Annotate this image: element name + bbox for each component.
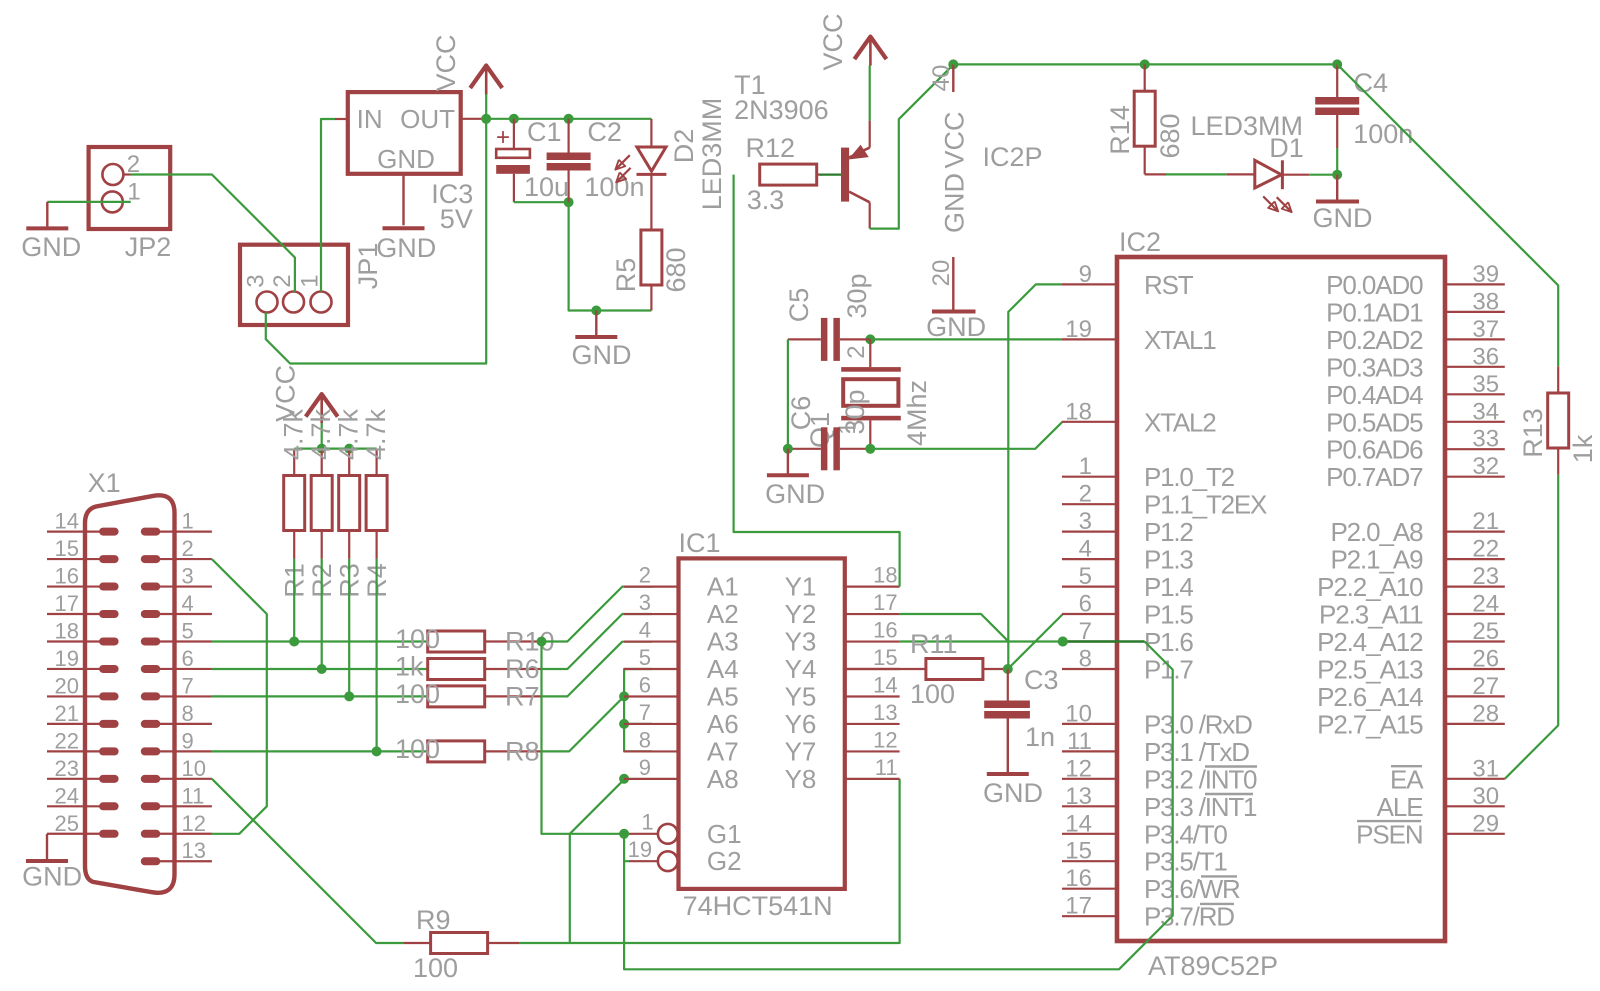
junction VCC rail at C2 <box>564 114 574 124</box>
pin X1-6 <box>141 665 161 673</box>
ground symbol at IC3 <box>383 226 425 230</box>
resistor R2 4.7k <box>321 449 323 476</box>
ground symbol at JP2 <box>46 202 48 227</box>
pin IC1 Y2 <box>845 613 900 615</box>
pin IC1 A3 <box>624 640 679 642</box>
wire R2 to X1 row <box>321 559 323 669</box>
buffer IC1 74HCT541N body <box>679 558 845 889</box>
svg-text:R12: R12 <box>746 133 796 163</box>
svg-text:C4: C4 <box>1354 68 1389 98</box>
junction at P1.6 (top) <box>1058 637 1068 647</box>
resistor R12 3.3 <box>760 164 817 185</box>
capacitor C1 10u polarized <box>513 119 515 149</box>
wire Y2 to RST net <box>900 614 1008 641</box>
junction R10 output <box>537 637 547 647</box>
svg-text:4: 4 <box>639 618 651 643</box>
pin IC2 P3.2 /INT0 (12) <box>1062 778 1117 780</box>
pin IC2 P2.1_A9 (22) <box>1445 558 1505 560</box>
svg-text:P2.7_A15: P2.7_A15 <box>1317 709 1423 739</box>
svg-text:P0.3AD3: P0.3AD3 <box>1326 352 1423 382</box>
LED D2 <box>650 119 652 147</box>
svg-text:8: 8 <box>639 727 651 752</box>
svg-text:680: 680 <box>661 247 691 292</box>
svg-text:2: 2 <box>182 536 194 561</box>
pin IC2 P1.6 (7) <box>1062 640 1117 642</box>
svg-text:R7: R7 <box>505 681 540 711</box>
svg-text:36: 36 <box>1472 343 1499 370</box>
svg-text:100: 100 <box>910 679 955 709</box>
junction bundle at A5 <box>619 691 629 701</box>
pin X1-24 <box>99 802 119 810</box>
pin IC1 Y7 <box>845 750 900 752</box>
pin IC2 P2.6_A14 (27) <box>1445 695 1505 697</box>
svg-text:27: 27 <box>1472 673 1499 700</box>
resistor R1 4.7k <box>293 449 295 476</box>
svg-text:17: 17 <box>1065 893 1092 920</box>
wire R3 to X1 row <box>348 559 350 697</box>
svg-text:19: 19 <box>55 646 79 671</box>
wire X1 to R6 <box>212 668 428 670</box>
junction XTAL1 at C5 <box>865 334 875 344</box>
svg-text:P0.5AD5: P0.5AD5 <box>1326 407 1423 437</box>
svg-text:A2: A2 <box>707 599 739 629</box>
wire JP2 pin2 to JP1 pin2 <box>131 175 295 293</box>
svg-text:8: 8 <box>182 701 194 726</box>
svg-text:P0.6AD6: P0.6AD6 <box>1326 435 1423 465</box>
svg-text:11: 11 <box>182 783 205 808</box>
svg-text:Y8: Y8 <box>785 764 817 794</box>
capacitor C4 100n <box>1336 64 1338 97</box>
pin X1-13 <box>141 857 161 865</box>
svg-text:2: 2 <box>639 563 651 588</box>
junction D1 C4 node <box>1332 170 1342 180</box>
wire R9 to Y8 riser <box>520 779 900 943</box>
resistor R3 4.7k <box>348 449 350 476</box>
svg-text:1k: 1k <box>1568 434 1598 463</box>
svg-text:13: 13 <box>182 838 206 863</box>
pin IC3 OUT <box>461 118 483 120</box>
svg-text:24: 24 <box>1472 591 1499 618</box>
svg-text:AT89C52P: AT89C52P <box>1148 951 1278 981</box>
wire VCC rail from IC3 OUT to D2 <box>483 118 651 120</box>
wire R12 to T1 base <box>817 174 822 176</box>
pin IC2 EA (31) <box>1445 778 1505 780</box>
svg-text:14: 14 <box>55 509 79 534</box>
junction at P1.6 <box>1058 637 1068 647</box>
wire IC1 A4-A7 bundle <box>624 669 652 751</box>
resistor R11 100 <box>845 668 926 670</box>
pin IC2 P0.7AD7 (32) <box>1445 476 1505 478</box>
svg-text:Y4: Y4 <box>785 654 817 684</box>
pin IC1 A1 <box>624 585 679 587</box>
pin X1-1 <box>141 528 161 536</box>
wire Y3 to P1.6 <box>900 640 1063 642</box>
wire R13 to EA pin31 <box>1505 475 1558 779</box>
svg-text:4Mhz: 4Mhz <box>902 380 932 446</box>
svg-text:2: 2 <box>843 345 870 358</box>
svg-text:7: 7 <box>639 700 651 725</box>
pin IC2 PSEN (29) <box>1445 833 1505 835</box>
svg-text:P1.1_T2EX: P1.1_T2EX <box>1144 490 1267 520</box>
pin X1-8 <box>141 720 161 728</box>
svg-text:Y2: Y2 <box>785 599 817 629</box>
svg-text:11: 11 <box>875 755 898 780</box>
svg-text:25: 25 <box>1472 618 1499 645</box>
wire T1 emitter to VCC <box>869 66 871 121</box>
overline RD <box>1200 903 1234 905</box>
pin IC2 P3.7/RD (17) <box>1062 915 1117 917</box>
svg-text:P2.4_A12: P2.4_A12 <box>1317 627 1423 657</box>
svg-text:2N3906: 2N3906 <box>734 95 829 125</box>
svg-text:12: 12 <box>182 811 206 836</box>
svg-text:100: 100 <box>413 953 458 983</box>
wire X1 pin2 to pin12 <box>212 559 267 834</box>
pin IC2 XTAL2 (18) <box>1062 421 1117 423</box>
resistor R7 100 <box>428 686 485 707</box>
junction RST C3 R11 <box>1003 664 1013 674</box>
svg-text:JP2: JP2 <box>125 232 172 262</box>
svg-text:C6: C6 <box>786 396 816 431</box>
capacitor C2 100n <box>567 119 569 153</box>
pin IC2 P3.3 /INT1 (13) <box>1062 805 1117 807</box>
svg-text:P1.2: P1.2 <box>1144 517 1193 547</box>
pin X1-18 <box>99 637 119 645</box>
svg-text:P2.6_A14: P2.6_A14 <box>1317 682 1423 712</box>
svg-text:30: 30 <box>1472 783 1499 810</box>
svg-text:XTAL2: XTAL2 <box>1144 407 1216 437</box>
svg-text:D2: D2 <box>669 129 699 164</box>
svg-text:XTAL1: XTAL1 <box>1144 325 1216 355</box>
junction R3 <box>344 691 354 701</box>
pin X1-10 <box>141 775 161 783</box>
svg-text:22: 22 <box>55 728 79 753</box>
svg-text:VCC: VCC <box>431 34 461 91</box>
capacitor C3 1n <box>1007 669 1009 701</box>
pin IC2 P0.5AD5 (34) <box>1445 421 1505 423</box>
svg-text:P2.5_A13: P2.5_A13 <box>1317 655 1423 685</box>
svg-text:EA: EA <box>1390 764 1424 794</box>
svg-text:680: 680 <box>1155 113 1185 158</box>
svg-text:3: 3 <box>182 564 194 589</box>
junction C ground node <box>564 197 574 207</box>
svg-text:GND: GND <box>765 479 825 509</box>
pin IC2 P2.0_A8 (21) <box>1445 530 1505 532</box>
svg-text:A3: A3 <box>707 627 739 657</box>
svg-text:P3.5/T1: P3.5/T1 <box>1144 847 1227 877</box>
svg-text:R14: R14 <box>1105 105 1135 155</box>
svg-text:P0.4AD4: P0.4AD4 <box>1326 380 1423 410</box>
ground symbol at C3 <box>987 772 1029 776</box>
svg-text:1: 1 <box>1079 453 1092 480</box>
svg-text:8: 8 <box>1079 646 1092 673</box>
wire RST diagonal to P1.5 <box>1008 614 1063 669</box>
pin IC2 P2.2_A10 (23) <box>1445 585 1505 587</box>
svg-text:17: 17 <box>873 590 897 615</box>
connector X1 DB25 outline <box>85 495 175 892</box>
svg-text:21: 21 <box>55 701 79 726</box>
resistor R4 4.7k <box>376 449 378 476</box>
svg-text:100: 100 <box>395 734 440 764</box>
svg-text:26: 26 <box>1472 646 1499 673</box>
pin X1-9 <box>141 747 161 755</box>
junction XTAL2 at Q1 <box>865 444 875 454</box>
svg-text:100: 100 <box>395 624 440 654</box>
pin X1-7 <box>141 692 161 700</box>
pin IC1 A5 <box>624 695 679 697</box>
svg-text:5: 5 <box>639 645 651 670</box>
pin IC1 A7 <box>624 750 679 752</box>
svg-text:ALE: ALE <box>1377 792 1424 822</box>
pin IC2 P0.2AD2 (37) <box>1445 338 1505 340</box>
svg-text:6: 6 <box>639 672 651 697</box>
pin X1-15 <box>99 555 119 563</box>
svg-text:3.3: 3.3 <box>747 185 785 215</box>
junction bus at R3 <box>344 444 354 454</box>
pin X1-17 <box>99 610 119 618</box>
svg-text:23: 23 <box>1472 563 1499 590</box>
wire XTAL1 net <box>870 338 1062 340</box>
svg-text:C1: C1 <box>527 117 562 147</box>
crystal Q1 4Mhz <box>869 339 871 367</box>
svg-text:P3.1 /TxD: P3.1 /TxD <box>1144 737 1249 767</box>
svg-text:IC1: IC1 <box>679 528 721 558</box>
pin IC2 P0.4AD4 (35) <box>1445 393 1505 395</box>
junction at C4 <box>1332 59 1342 69</box>
pin IC2 P3.4/T0 (14) <box>1062 833 1117 835</box>
svg-text:33: 33 <box>1472 426 1499 453</box>
svg-text:4.7k: 4.7k <box>361 408 391 460</box>
svg-text:Y1: Y1 <box>785 572 817 602</box>
power VCC arrow above T1 <box>854 37 886 60</box>
wire JP1 pin3 to VCC net <box>266 119 486 364</box>
junction bundle at A6 <box>619 719 629 729</box>
svg-text:31: 31 <box>1472 755 1499 782</box>
svg-text:P0.0AD0: P0.0AD0 <box>1326 270 1423 300</box>
pin IC1 G1 <box>629 833 658 835</box>
wire enable over P1.6 pin <box>1063 640 1145 642</box>
svg-text:P2.1_A9: P2.1_A9 <box>1330 545 1423 575</box>
svg-text:13: 13 <box>873 700 897 725</box>
pin X1-14 <box>99 528 119 536</box>
wire VCC bus above R1-R4 <box>294 448 376 450</box>
svg-text:2: 2 <box>1079 481 1092 508</box>
svg-text:15: 15 <box>55 536 79 561</box>
pin IC1 Y5 <box>845 695 900 697</box>
wire C5 C6 ground leg <box>787 339 789 448</box>
regulator IC3 5V body <box>348 92 461 174</box>
junction enable at G1 <box>619 829 629 839</box>
wire XTAL2 net <box>870 422 1062 449</box>
svg-text:R9: R9 <box>416 905 451 935</box>
overline WR <box>1201 875 1237 877</box>
pin X1-16 <box>99 583 119 591</box>
svg-text:GND: GND <box>572 340 632 370</box>
svg-text:GND: GND <box>376 233 436 263</box>
pin X1-21 <box>99 720 119 728</box>
connector JP1 <box>240 245 348 325</box>
svg-text:OUT: OUT <box>400 104 455 134</box>
wire enable net R10 to G1 G2 <box>542 642 630 834</box>
svg-text:LED3MM: LED3MM <box>697 98 727 211</box>
wire Y8 net diagonal to A8 <box>570 779 625 834</box>
svg-text:37: 37 <box>1472 316 1499 343</box>
wire X1 to R10 <box>212 640 428 642</box>
junction VCC rail at arrow <box>481 114 491 124</box>
svg-text:40: 40 <box>928 65 955 92</box>
resistor R10 100 <box>428 631 485 652</box>
svg-text:C3: C3 <box>1024 665 1059 695</box>
svg-text:30p: 30p <box>842 273 872 318</box>
svg-text:R13: R13 <box>1518 408 1548 458</box>
svg-text:4: 4 <box>182 591 194 616</box>
ground symbol at C1 C2 R5 <box>595 311 597 336</box>
connector JP2 <box>89 147 171 229</box>
svg-text:P2.2_A10: P2.2_A10 <box>1317 572 1423 602</box>
junction C6 ground <box>783 444 793 454</box>
svg-text:20: 20 <box>928 260 955 287</box>
junction R1 <box>289 637 299 647</box>
wire R7 to IC1 A3 <box>542 642 653 697</box>
pin IC2 ALE (30) <box>1445 805 1505 807</box>
wire VCC arrow stem <box>485 94 487 119</box>
junction at R14 <box>1140 59 1150 69</box>
svg-text:22: 22 <box>1472 536 1499 563</box>
svg-text:C5: C5 <box>784 288 814 323</box>
wire C1 bottom to C2 bottom <box>514 201 569 203</box>
overline PSEN <box>1357 820 1421 822</box>
svg-text:P1.7: P1.7 <box>1144 655 1193 685</box>
svg-text:P3.6/WR: P3.6/WR <box>1144 874 1240 904</box>
pin X1-25 <box>99 830 119 838</box>
svg-text:16: 16 <box>873 618 897 643</box>
power VCC arrow above R1-R4 <box>306 394 338 417</box>
svg-text:13: 13 <box>1065 783 1092 810</box>
pin IC1 G2 <box>629 860 658 862</box>
wire R1 to X1 row <box>293 559 295 642</box>
svg-text:38: 38 <box>1472 288 1499 315</box>
svg-text:100n: 100n <box>584 172 644 202</box>
svg-text:19: 19 <box>1065 316 1092 343</box>
svg-text:12: 12 <box>1065 755 1092 782</box>
pin IC3 IN stub <box>335 118 348 120</box>
overline EA <box>1391 765 1422 767</box>
resistor R14 680 <box>1144 64 1146 91</box>
svg-text:1n: 1n <box>1025 722 1055 752</box>
wire D1 cathode to C4 node <box>1309 174 1337 176</box>
svg-text:P1.5: P1.5 <box>1144 600 1193 630</box>
junction ground rail <box>591 306 601 316</box>
svg-text:IC2P: IC2P <box>983 142 1043 172</box>
junction R2 <box>317 664 327 674</box>
svg-text:P3.0 /RxD: P3.0 /RxD <box>1144 709 1252 739</box>
pin IC2 P3.6/WR (16) <box>1062 888 1117 890</box>
svg-text:1k: 1k <box>395 652 424 682</box>
wire T1 collector to pin40 net <box>870 65 954 229</box>
transistor T1 2N3906 <box>841 148 849 202</box>
wire VCC arrow to bus <box>321 423 323 449</box>
svg-text:GND: GND <box>983 778 1043 808</box>
power VCC arrow above IC3 OUT <box>470 66 502 89</box>
svg-text:4.7k: 4.7k <box>279 408 309 460</box>
pin X1-22 <box>99 747 119 755</box>
pin IC1 A8 <box>624 778 679 780</box>
ground symbol at IC2P pin20 <box>932 310 976 314</box>
ground symbol at C4 <box>1336 175 1338 200</box>
svg-text:R11: R11 <box>910 629 958 659</box>
svg-text:18: 18 <box>873 563 897 588</box>
svg-text:P1.4: P1.4 <box>1144 572 1193 602</box>
svg-text:VCC: VCC <box>940 111 970 168</box>
resistor R8 100 <box>428 741 485 762</box>
svg-text:1: 1 <box>641 810 653 835</box>
wire X1 to R8 <box>212 750 428 752</box>
pin IC1 A4 <box>624 668 679 670</box>
wire RST pin9 down to C3 node <box>1008 284 1062 669</box>
pin IC2 P1.3 (4) <box>1062 558 1117 560</box>
svg-text:3: 3 <box>1079 508 1092 535</box>
svg-text:A5: A5 <box>707 681 739 711</box>
svg-text:GND: GND <box>21 232 81 262</box>
svg-text:7: 7 <box>182 673 194 698</box>
svg-text:P3.3 /INT1: P3.3 /INT1 <box>1144 792 1257 822</box>
svg-text:P3.2 /INT0: P3.2 /INT0 <box>1144 764 1257 794</box>
svg-text:G1: G1 <box>707 819 742 849</box>
svg-text:R8: R8 <box>505 736 540 766</box>
svg-text:A4: A4 <box>707 654 739 684</box>
svg-text:5V: 5V <box>440 204 473 234</box>
svg-text:17: 17 <box>55 591 79 616</box>
svg-text:9: 9 <box>182 728 194 753</box>
resistor R6 1k <box>428 659 485 680</box>
resistor R13 1k <box>1557 366 1559 393</box>
svg-text:P1.0_T2: P1.0_T2 <box>1144 462 1235 492</box>
svg-text:35: 35 <box>1472 371 1499 398</box>
svg-text:P0.2AD2: P0.2AD2 <box>1326 325 1423 355</box>
junction VCC rail at C1 <box>509 114 519 124</box>
svg-text:12: 12 <box>873 727 897 752</box>
wire VCC net pin40 to C4 <box>953 63 1337 65</box>
pin IC2 P1.2 (3) <box>1062 530 1117 532</box>
svg-text:10: 10 <box>182 756 206 781</box>
pin IC2 P3.0 /RxD (10) <box>1062 723 1117 725</box>
svg-text:P0.7AD7: P0.7AD7 <box>1326 462 1423 492</box>
wire R6 to IC1 A2 <box>542 614 653 669</box>
svg-text:16: 16 <box>55 564 79 589</box>
svg-text:9: 9 <box>639 755 651 780</box>
pin IC2 P0.0AD0 (39) <box>1445 283 1505 285</box>
svg-text:R6: R6 <box>505 654 540 684</box>
svg-text:P2.0_A8: P2.0_A8 <box>1330 517 1423 547</box>
svg-text:30p: 30p <box>840 389 870 434</box>
svg-text:A6: A6 <box>707 709 739 739</box>
svg-text:P1.6: P1.6 <box>1144 627 1193 657</box>
svg-text:PSEN: PSEN <box>1356 819 1422 849</box>
svg-text:25: 25 <box>55 811 79 836</box>
pin X1-19 <box>99 665 119 673</box>
wire X1 to R7 <box>212 695 428 697</box>
svg-text:4.7k: 4.7k <box>334 408 364 460</box>
overline INT1 <box>1205 793 1253 795</box>
svg-text:24: 24 <box>55 783 79 808</box>
svg-text:5: 5 <box>1079 563 1092 590</box>
pin IC1 Y3 <box>845 640 900 642</box>
resistor R5 680 <box>641 230 662 285</box>
pin IC2 P0.1AD1 (38) <box>1445 311 1505 313</box>
pin IC2 P1.0_T2 (1) <box>1062 476 1117 478</box>
wire C4 bottom to node <box>1336 148 1338 175</box>
pin IC2 P3.1 /TxD (11) <box>1062 750 1117 752</box>
pin X1-3 <box>141 583 161 591</box>
